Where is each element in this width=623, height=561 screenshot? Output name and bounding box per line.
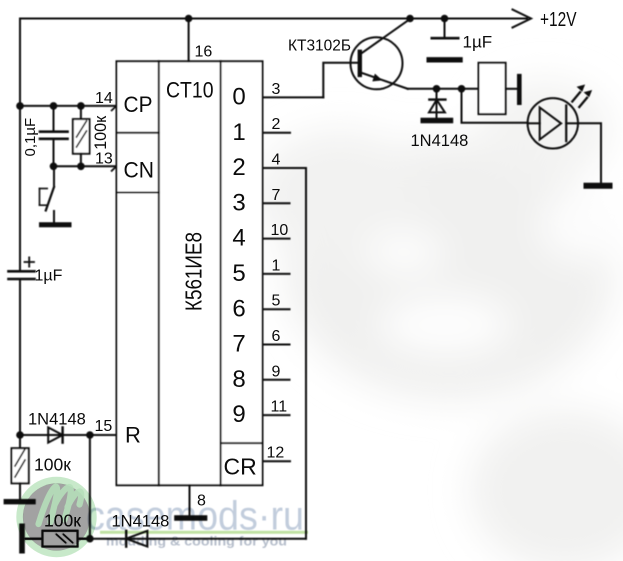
svg-text:0: 0 bbox=[232, 84, 245, 111]
svg-text:14: 14 bbox=[95, 90, 113, 107]
svg-text:3: 3 bbox=[232, 189, 245, 216]
svg-text:100к: 100к bbox=[44, 511, 81, 531]
svg-text:9: 9 bbox=[232, 401, 245, 428]
wire: ground to resistor bbox=[25, 538, 43, 540]
dynamic input slash CP bbox=[112, 101, 122, 110]
svg-text:0,1µF: 0,1µF bbox=[22, 118, 39, 157]
pushbutton switch SB bbox=[53, 166, 55, 187]
node: left rail / reset row bbox=[16, 431, 24, 439]
svg-text:4: 4 bbox=[272, 152, 281, 169]
node: cap branch bottom bbox=[50, 163, 58, 171]
svg-text:К561ИЕ8: К561ИЕ8 bbox=[181, 232, 207, 311]
node: flyback diode junction bbox=[433, 85, 441, 93]
node: resistor branch bottom bbox=[77, 163, 85, 171]
wire: base connection from pin 3 bbox=[323, 63, 358, 98]
transistor VT1 KT3102B bbox=[351, 37, 403, 89]
diode VD 1N4148 bottom bbox=[125, 531, 127, 547]
svg-text:13: 13 bbox=[95, 151, 113, 168]
svg-text:2: 2 bbox=[272, 116, 281, 133]
pin 3 stub (out 0) bbox=[263, 96, 324, 98]
resistor R 100k horizontal bbox=[43, 531, 78, 547]
pin 10 stub (out 4) bbox=[263, 238, 290, 240]
IC inner column lines bbox=[158, 61, 160, 485]
svg-text:8: 8 bbox=[232, 366, 245, 393]
pin 12 stub (CR) bbox=[263, 460, 291, 462]
relay K1 coil bbox=[479, 63, 506, 114]
wire: R pin vertical down bbox=[89, 435, 91, 539]
node: junction cap 1uF on rail bbox=[441, 15, 449, 23]
svg-text:6: 6 bbox=[272, 328, 281, 345]
wire: CP row bbox=[20, 105, 117, 107]
wire: emitter row bbox=[408, 88, 479, 90]
svg-text:5: 5 bbox=[232, 260, 245, 287]
svg-text:100к: 100к bbox=[34, 455, 71, 475]
svg-text:1: 1 bbox=[232, 119, 245, 146]
ground (resistor) bbox=[6, 499, 33, 504]
ground (switch) bbox=[42, 222, 70, 227]
svg-text:R: R bbox=[125, 423, 141, 448]
LED HL1 bbox=[528, 98, 578, 148]
capacitor C 1uF top right bbox=[444, 19, 446, 37]
ground (flyback diode) bbox=[423, 118, 450, 123]
pin 16 wire bbox=[188, 19, 190, 62]
node: junction collector on rail bbox=[406, 15, 414, 23]
diode VD 1N4148 flyback bbox=[436, 89, 438, 118]
pin 9 stub (out 8) bbox=[263, 379, 290, 381]
svg-text:1: 1 bbox=[272, 257, 281, 274]
svg-text:1N4148: 1N4148 bbox=[411, 132, 469, 150]
node: cap branch top bbox=[50, 102, 58, 110]
svg-text:5: 5 bbox=[272, 293, 281, 310]
pin 6 stub (out 7) bbox=[263, 344, 290, 346]
wire: CN row bbox=[54, 165, 117, 167]
node: LED branch junction bbox=[458, 85, 466, 93]
resistor R 100k vertical bottom bbox=[19, 435, 21, 448]
svg-text:15: 15 bbox=[95, 418, 113, 435]
wire: LED branch bbox=[462, 89, 528, 123]
svg-text:1N4148: 1N4148 bbox=[28, 411, 86, 429]
node: bottom wire junction bbox=[86, 535, 94, 543]
svg-text:9: 9 bbox=[272, 363, 281, 380]
svg-text:7: 7 bbox=[272, 187, 281, 204]
node: R pin junction bbox=[86, 431, 94, 439]
svg-text:1µF: 1µF bbox=[463, 33, 493, 52]
wire: feedback vertical from pin 4 bbox=[305, 168, 307, 539]
node: resistor branch top bbox=[77, 102, 85, 110]
svg-text:100к: 100к bbox=[91, 115, 110, 150]
svg-text:CP: CP bbox=[124, 92, 153, 117]
svg-text:1µF: 1µF bbox=[35, 268, 63, 285]
ground (bottom-left, sideways) bbox=[19, 526, 25, 550]
node: left rail / CP row bbox=[16, 102, 24, 110]
faint scan clouds bbox=[255, 80, 623, 561]
LED emission arrows bbox=[572, 92, 580, 101]
wire: reset row bbox=[20, 434, 117, 436]
pin 5 stub (out 6) bbox=[263, 308, 290, 310]
dynamic input slash CN bbox=[112, 162, 122, 171]
wire: LED to ground bbox=[578, 123, 601, 182]
svg-text:11: 11 bbox=[271, 399, 288, 416]
ground (pin 8) bbox=[177, 515, 205, 521]
IC CR divider bbox=[221, 442, 263, 444]
+12V arrow bbox=[513, 10, 532, 28]
ground (LED) bbox=[587, 183, 610, 189]
node: junction pin16 on rail bbox=[185, 15, 193, 23]
svg-text:2: 2 bbox=[232, 154, 245, 181]
svg-text:КТ3102Б: КТ3102Б bbox=[288, 38, 351, 55]
svg-text:4: 4 bbox=[232, 225, 245, 252]
svg-text:7: 7 bbox=[232, 331, 245, 358]
svg-text:+12V: +12V bbox=[540, 9, 577, 31]
watermark logo disc bbox=[23, 483, 90, 550]
redraw resistor R horizontal over logo bbox=[25, 531, 90, 547]
pin 2 stub (out 1) bbox=[263, 132, 291, 134]
resistor R 100k vertical top bbox=[80, 106, 82, 119]
wire: left vertical rail bbox=[19, 19, 21, 272]
svg-text:modding & cooling for you: modding & cooling for you bbox=[106, 534, 287, 549]
svg-text:CN: CN bbox=[124, 158, 155, 183]
wire: +12V top rail bbox=[20, 18, 527, 20]
svg-text:CR: CR bbox=[224, 454, 257, 480]
relay core bar bbox=[517, 76, 522, 103]
svg-text:16: 16 bbox=[195, 44, 213, 61]
svg-text:6: 6 bbox=[232, 295, 245, 322]
capacitor C 0.1uF bbox=[53, 106, 55, 131]
pin 8 wire bbox=[189, 485, 191, 515]
watermark underline bbox=[100, 531, 308, 534]
pin 15 wire into R bbox=[90, 434, 117, 436]
watermark text casemods.ru bbox=[86, 493, 308, 549]
watermark script M bbox=[39, 487, 82, 524]
watermark logo ring bbox=[20, 480, 94, 554]
svg-text:CT10: CT10 bbox=[166, 78, 214, 103]
pin 7 stub (out 3) bbox=[263, 202, 290, 204]
svg-text:12: 12 bbox=[267, 445, 285, 462]
pin 1 stub (out 5) bbox=[263, 273, 290, 275]
svg-text:3: 3 bbox=[272, 81, 281, 98]
IC U1 K561IE8 outer box bbox=[117, 61, 263, 485]
diode VD 1N4148 reset bbox=[48, 427, 62, 442]
pin 11 stub (out 9) bbox=[263, 414, 290, 416]
IC left strip divider under CP bbox=[117, 132, 159, 134]
IC left strip divider under CN bbox=[117, 192, 159, 194]
wire: bottom row bbox=[78, 538, 307, 540]
capacitor C 1uF electrolytic left bbox=[9, 270, 35, 273]
pin 4 stub (out 2) bbox=[263, 167, 307, 169]
svg-text:10: 10 bbox=[271, 222, 289, 239]
